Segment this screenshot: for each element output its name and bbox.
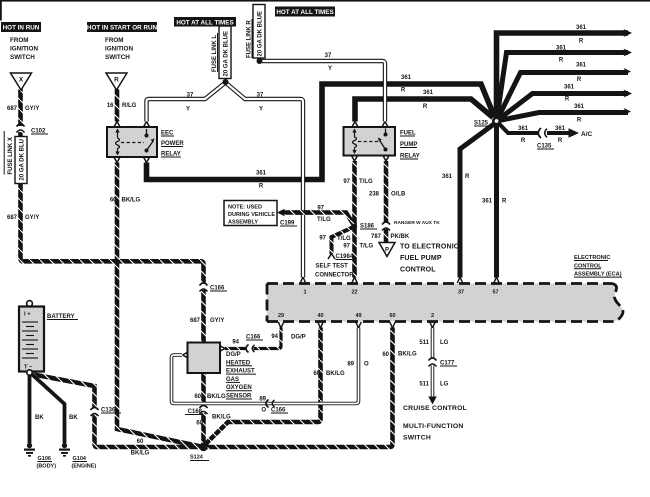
svg-text:BK/LG: BK/LG xyxy=(326,371,345,377)
svg-text:R: R xyxy=(502,199,507,205)
svg-text:361: 361 xyxy=(576,63,587,69)
svg-text:20 GA DK BLUE: 20 GA DK BLUE xyxy=(258,11,264,56)
svg-text:97: 97 xyxy=(317,206,324,212)
svg-text:BK/LG: BK/LG xyxy=(122,198,141,204)
svg-text:37: 37 xyxy=(257,93,264,99)
svg-text:2: 2 xyxy=(431,313,434,319)
svg-text:IGNITION: IGNITION xyxy=(105,46,133,53)
svg-text:94: 94 xyxy=(271,334,278,340)
svg-text:687: 687 xyxy=(190,318,201,324)
svg-text:Y: Y xyxy=(259,107,263,113)
svg-text:361: 361 xyxy=(423,90,434,96)
svg-text:(ENGINE): (ENGINE) xyxy=(72,464,97,470)
svg-text:97: 97 xyxy=(343,179,350,185)
svg-text:GY/Y: GY/Y xyxy=(210,318,224,324)
svg-text:60: 60 xyxy=(194,394,201,400)
svg-text:BK: BK xyxy=(35,415,44,421)
svg-text:SELF TEST: SELF TEST xyxy=(316,264,349,270)
svg-text:361: 361 xyxy=(576,25,587,31)
svg-text:IGNITION: IGNITION xyxy=(10,46,38,53)
svg-text:22: 22 xyxy=(351,290,357,296)
svg-text:O: O xyxy=(261,408,266,414)
svg-text:LG: LG xyxy=(440,382,449,388)
svg-text:X: X xyxy=(19,77,24,84)
svg-text:37: 37 xyxy=(458,290,464,296)
svg-text:T/LG: T/LG xyxy=(317,217,331,223)
svg-text:60: 60 xyxy=(110,198,117,204)
svg-text:361: 361 xyxy=(518,126,529,132)
svg-text:20 GA DK BLU: 20 GA DK BLU xyxy=(20,139,26,180)
svg-text:Y: Y xyxy=(328,66,332,72)
svg-text:1: 1 xyxy=(303,290,306,296)
svg-text:511: 511 xyxy=(419,340,429,346)
svg-text:SWITCH: SWITCH xyxy=(10,54,35,61)
svg-text:TO ELECTRONIC: TO ELECTRONIC xyxy=(400,244,459,251)
svg-text:R: R xyxy=(559,58,564,64)
svg-text:(BODY): (BODY) xyxy=(37,464,57,470)
svg-text:R: R xyxy=(558,138,563,144)
svg-text:361: 361 xyxy=(482,199,493,205)
svg-text:94: 94 xyxy=(232,340,239,346)
svg-text:Y: Y xyxy=(186,107,190,113)
svg-text:361: 361 xyxy=(564,85,575,91)
svg-text:787: 787 xyxy=(371,234,382,240)
svg-text:S124: S124 xyxy=(190,455,204,461)
svg-text:361: 361 xyxy=(401,75,412,81)
svg-text:l +: l + xyxy=(24,312,31,318)
svg-text:DG/P: DG/P xyxy=(291,335,306,341)
svg-text:PK/BK: PK/BK xyxy=(391,234,410,240)
svg-text:57: 57 xyxy=(492,290,498,296)
svg-text:BK: BK xyxy=(69,415,78,421)
svg-text:HOT IN RUN: HOT IN RUN xyxy=(3,25,40,32)
svg-text:SWITCH: SWITCH xyxy=(105,54,130,61)
svg-text:T/LG: T/LG xyxy=(359,179,373,185)
svg-text:20 GA DK BLUE: 20 GA DK BLUE xyxy=(224,31,230,76)
svg-text:37: 37 xyxy=(187,93,194,99)
svg-text:SWITCH: SWITCH xyxy=(403,435,431,442)
svg-text:FROM: FROM xyxy=(105,37,124,44)
svg-text:LG: LG xyxy=(440,340,449,346)
svg-text:FUSE LINK X: FUSE LINK X xyxy=(8,137,14,174)
svg-text:R: R xyxy=(577,118,582,124)
svg-text:R: R xyxy=(565,97,570,103)
svg-text:29: 29 xyxy=(278,313,284,319)
svg-text:16: 16 xyxy=(107,103,114,109)
svg-text:361: 361 xyxy=(442,174,453,180)
svg-text:97: 97 xyxy=(343,244,350,250)
svg-text:60: 60 xyxy=(389,313,395,319)
svg-text:60: 60 xyxy=(382,352,389,358)
svg-text:T/LG: T/LG xyxy=(360,244,374,250)
svg-text:89: 89 xyxy=(259,397,266,403)
svg-text:DURING VEHICLE: DURING VEHICLE xyxy=(228,212,275,218)
svg-text:CRUISE CONTROL: CRUISE CONTROL xyxy=(403,405,467,412)
svg-text:O: O xyxy=(364,362,369,368)
svg-text:R/LG: R/LG xyxy=(122,103,137,109)
svg-text:O/LB: O/LB xyxy=(391,192,406,198)
svg-text:A/C: A/C xyxy=(581,131,593,138)
svg-text:60: 60 xyxy=(313,371,320,377)
svg-text:FUEL PUMP: FUEL PUMP xyxy=(400,255,442,262)
svg-text:40: 40 xyxy=(317,313,323,319)
svg-text:89: 89 xyxy=(347,362,354,368)
svg-text:GY/Y: GY/Y xyxy=(25,106,39,112)
svg-text:687: 687 xyxy=(7,215,18,221)
svg-text:T/LG: T/LG xyxy=(337,236,351,242)
svg-text:687: 687 xyxy=(7,106,18,112)
svg-text:361: 361 xyxy=(256,171,267,177)
svg-text:R: R xyxy=(521,138,526,144)
svg-text:CONTROL: CONTROL xyxy=(400,267,436,274)
svg-text:R: R xyxy=(465,174,470,180)
svg-text:R: R xyxy=(114,77,119,84)
svg-text:511: 511 xyxy=(419,382,429,388)
svg-text:49: 49 xyxy=(355,313,361,319)
svg-text:R: R xyxy=(423,104,428,110)
svg-text:60: 60 xyxy=(137,439,144,445)
svg-text:BK/LG: BK/LG xyxy=(212,415,231,421)
svg-text:HOT AT ALL TIMES: HOT AT ALL TIMES xyxy=(276,9,333,16)
svg-text:R: R xyxy=(579,39,584,45)
svg-text:HOT IN START OR RUN: HOT IN START OR RUN xyxy=(87,25,158,32)
svg-text:ASSEMBLY: ASSEMBLY xyxy=(228,220,258,226)
svg-text:R: R xyxy=(401,88,406,94)
svg-text:NOTE: USED: NOTE: USED xyxy=(228,205,262,211)
svg-text:T −: T − xyxy=(24,365,33,371)
svg-text:C136: C136 xyxy=(101,408,116,414)
svg-text:CONNECTOR: CONNECTOR xyxy=(315,273,354,279)
svg-text:BK/LG: BK/LG xyxy=(131,451,150,457)
svg-text:BK/LG: BK/LG xyxy=(207,394,226,400)
svg-text:361: 361 xyxy=(555,126,566,132)
svg-text:GY/Y: GY/Y xyxy=(25,215,39,221)
svg-text:BK/LG: BK/LG xyxy=(398,352,417,358)
svg-text:RANGER W AUX TK: RANGER W AUX TK xyxy=(394,220,440,226)
svg-text:238: 238 xyxy=(369,192,380,198)
svg-text:MULTI-FUNCTION: MULTI-FUNCTION xyxy=(403,423,463,430)
svg-text:FROM: FROM xyxy=(10,37,29,44)
svg-text:361: 361 xyxy=(556,46,567,52)
svg-text:R: R xyxy=(577,77,582,83)
svg-text:P: P xyxy=(385,248,389,254)
svg-text:361: 361 xyxy=(574,104,585,110)
svg-text:DG/P: DG/P xyxy=(226,352,241,358)
svg-text:37: 37 xyxy=(325,53,332,59)
svg-text:97: 97 xyxy=(319,236,326,242)
svg-text:R: R xyxy=(259,184,264,190)
svg-text:60: 60 xyxy=(196,421,203,427)
